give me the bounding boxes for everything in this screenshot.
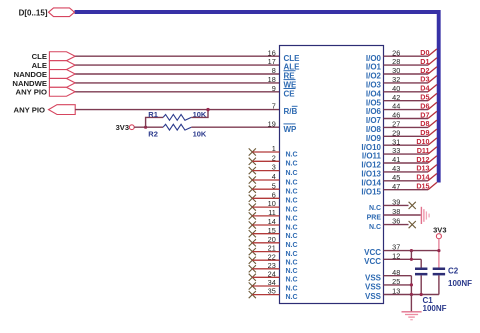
svg-text:16: 16 [268, 48, 276, 57]
svg-text:D14: D14 [416, 173, 429, 182]
wire R2 to pin 19 [191, 126, 279, 128]
junction dot VSS/ground [410, 293, 413, 296]
wire ground stem [410, 295, 412, 312]
pin 16 CLE [268, 48, 300, 63]
svg-text:NANDOE: NANDOE [14, 70, 47, 79]
svg-text:D5: D5 [420, 93, 429, 102]
pin 20 N.C (left row 11) [249, 235, 298, 249]
svg-text:I/O6: I/O6 [366, 107, 382, 116]
svg-text:I/O1: I/O1 [366, 63, 382, 72]
svg-text:D11: D11 [417, 146, 430, 155]
pin 2 N.C (left row 2) [249, 153, 298, 167]
svg-text:4: 4 [272, 172, 276, 181]
svg-text:N.C: N.C [369, 224, 381, 231]
wire I/O7 to bus [384, 118, 429, 120]
svg-text:5: 5 [272, 181, 276, 190]
bus D[0..15] wire [75, 12, 439, 183]
wire R1 left lead [146, 117, 164, 127]
svg-text:I/O0: I/O0 [366, 54, 382, 63]
svg-text:10K: 10K [193, 130, 207, 139]
svg-text:VSS: VSS [365, 283, 382, 292]
svg-text:C2: C2 [448, 267, 459, 276]
svg-text:18: 18 [268, 75, 276, 84]
wire I/O5 to bus [384, 100, 429, 102]
svg-text:D10: D10 [416, 137, 429, 146]
wire 3V3 down to VCC net [438, 239, 440, 268]
svg-text:D6: D6 [420, 101, 429, 110]
pin 42 I/O5 [366, 93, 400, 108]
svg-text:2: 2 [272, 153, 276, 162]
svg-text:I/O11: I/O11 [362, 152, 382, 161]
pin 38 PRE [367, 207, 421, 222]
svg-text:I/O9: I/O9 [366, 134, 382, 143]
svg-text:I/O2: I/O2 [366, 72, 382, 81]
svg-text:35: 35 [268, 287, 276, 296]
svg-text:CLE: CLE [284, 54, 301, 63]
pin 6 N.C (left row 6) [249, 190, 298, 204]
wire ANY PIO to IC [75, 91, 279, 93]
pin 25 VSS [365, 277, 411, 292]
ground symbol [402, 312, 422, 320]
wire I/O11 to bus [384, 153, 429, 155]
svg-text:R/B: R/B [284, 107, 298, 116]
pin 12 VCC [364, 251, 421, 266]
junction dot VCC 12 [410, 258, 413, 261]
wire I/O12 to bus [384, 162, 429, 164]
svg-text:N.C: N.C [286, 161, 298, 168]
op IC U? NAND flash body [280, 46, 384, 304]
pin 22 N.C (left row 13) [249, 252, 298, 266]
junction dot VCC rail [410, 249, 413, 252]
svg-text:N.C: N.C [286, 294, 298, 301]
wire I/O2 to bus [384, 73, 429, 75]
junction dot VSS 25 [410, 283, 413, 286]
wire VSS rail [410, 276, 412, 295]
svg-text:8: 8 [272, 66, 276, 75]
svg-text:D13: D13 [416, 164, 429, 173]
svg-text:N.C: N.C [286, 233, 298, 240]
svg-text:VSS: VSS [365, 273, 382, 282]
svg-text:11: 11 [268, 208, 276, 217]
pin 5 N.C (left row 5) [249, 181, 298, 195]
wire 3V3 to R2 [134, 126, 163, 128]
pin 18 WE [268, 75, 297, 90]
pin 11 N.C (left row 8) [249, 208, 298, 222]
pin 19 WP [268, 119, 297, 134]
pin 13 VSS [365, 287, 439, 302]
junction dot R1/pin7 [206, 108, 209, 111]
svg-text:I/O14: I/O14 [361, 178, 381, 187]
pin 10 N.C (left row 7) [249, 199, 298, 213]
svg-text:I/O5: I/O5 [366, 98, 382, 107]
wire I/O13 to bus [384, 171, 429, 173]
port D[0..15] [19, 8, 75, 18]
wire NANDOE to IC [75, 73, 279, 75]
wire VCC 37-12 tie [410, 251, 412, 260]
svg-text:D1: D1 [420, 57, 429, 66]
svg-text:N.C: N.C [286, 207, 298, 214]
pin 7 R/B [272, 102, 298, 117]
pin 8 RE [272, 66, 296, 81]
pin 46 I/O7 [366, 111, 400, 126]
pin 35 N.C (left row 17) [249, 287, 298, 301]
pin 9 CE [272, 84, 296, 99]
wire CLE to IC [75, 55, 279, 57]
svg-text:24: 24 [268, 269, 276, 278]
wire C1 top lead [420, 259, 422, 267]
svg-text:PRE: PRE [367, 215, 382, 222]
svg-text:VCC: VCC [364, 257, 381, 266]
port ALE [32, 61, 76, 70]
svg-text:3: 3 [272, 163, 276, 172]
pin 24 N.C (left row 15) [249, 269, 298, 283]
port ANY PIO (pin 7 net) [14, 105, 76, 115]
svg-text:I/O10: I/O10 [361, 143, 381, 152]
pin 34 N.C (left row 16) [249, 278, 298, 292]
svg-text:D9: D9 [420, 128, 429, 137]
pin 27 I/O8 [366, 120, 400, 135]
svg-text:7: 7 [272, 102, 276, 111]
pin 4 N.C (left row 4) [249, 172, 298, 186]
svg-text:N.C: N.C [286, 151, 298, 158]
svg-text:I/O7: I/O7 [366, 116, 382, 125]
pin 23 N.C (left row 14) [249, 261, 298, 275]
svg-text:N.C: N.C [286, 215, 298, 222]
wire C2 bottom lead [438, 275, 440, 294]
capacitor C1 100NF [415, 268, 447, 314]
pin 29 I/O9 [366, 128, 400, 143]
svg-text:D[0..15]: D[0..15] [19, 9, 48, 18]
svg-text:WP: WP [284, 125, 298, 134]
svg-text:9: 9 [272, 84, 276, 93]
svg-text:N.C: N.C [286, 260, 298, 267]
svg-text:N.C: N.C [286, 268, 298, 275]
pin 48 VSS [365, 268, 411, 283]
svg-text:I/O15: I/O15 [361, 187, 381, 196]
wire NANDWE to IC [75, 82, 279, 84]
svg-text:D2: D2 [420, 66, 429, 75]
svg-text:D12: D12 [416, 155, 429, 164]
junction dot R1/R2 node [144, 126, 147, 129]
pin 1 N.C (left row 1) [249, 144, 298, 158]
port NANDOE [14, 70, 76, 79]
wire I/O3 to bus [384, 82, 429, 84]
power node 3V3 (right) [433, 225, 446, 238]
port NANDWE [12, 78, 75, 87]
svg-text:100NF: 100NF [448, 279, 472, 288]
svg-text:N.C: N.C [286, 198, 298, 205]
wire I/O15 to bus [384, 189, 429, 191]
svg-text:I/O12: I/O12 [361, 161, 381, 170]
svg-text:D7: D7 [420, 110, 429, 119]
svg-text:N.C: N.C [286, 170, 298, 177]
svg-text:ANY PIO: ANY PIO [14, 106, 45, 115]
wire I/O8 to bus [384, 126, 429, 128]
pin 15 N.C (left row 10) [249, 226, 298, 240]
wire ALE to IC [75, 64, 279, 66]
svg-text:N.C: N.C [286, 179, 298, 186]
svg-text:1: 1 [272, 144, 276, 153]
pin 21 N.C (left row 12) [249, 244, 298, 258]
open/antenna symbol on PRE [421, 207, 429, 224]
svg-text:N.C: N.C [286, 242, 298, 249]
wire C1 bottom lead [420, 275, 422, 294]
pin 31 I/O10 [361, 137, 400, 152]
resistor R1 10K [148, 110, 207, 120]
svg-text:ALE: ALE [32, 61, 47, 70]
pin 47 I/O15 [361, 182, 400, 197]
svg-text:N.C: N.C [286, 224, 298, 231]
svg-text:R1: R1 [148, 110, 158, 119]
svg-text:17: 17 [268, 57, 276, 66]
svg-text:14: 14 [268, 217, 276, 226]
svg-text:I/O8: I/O8 [366, 125, 382, 134]
power node 3V3 (left) [116, 123, 135, 132]
svg-text:D3: D3 [420, 75, 429, 84]
svg-text:N.C: N.C [286, 251, 298, 258]
svg-text:N.C: N.C [369, 205, 381, 212]
wire R1 right lead to pin7 net [191, 110, 208, 118]
svg-text:VSS: VSS [365, 292, 382, 301]
svg-text:D15: D15 [416, 182, 429, 191]
svg-text:R2: R2 [148, 130, 158, 139]
port CLE [32, 52, 76, 61]
pin 40 I/O4 [366, 84, 400, 99]
pin 14 N.C (left row 9) [249, 217, 298, 231]
pin 36 N.C [369, 217, 416, 232]
wire I/O10 to bus [384, 144, 429, 146]
wire I/O14 to bus [384, 180, 429, 182]
resistor R2 10K [148, 124, 207, 138]
svg-text:3V3: 3V3 [116, 123, 129, 132]
port ANY PIO [16, 87, 76, 96]
pin 28 I/O1 [366, 57, 400, 72]
svg-text:I/O4: I/O4 [366, 89, 382, 98]
pin 26 I/O0 [366, 48, 400, 63]
svg-text:10: 10 [268, 199, 276, 208]
svg-text:D4: D4 [420, 84, 429, 93]
pin 37 VCC [364, 243, 439, 258]
svg-text:D8: D8 [420, 119, 429, 128]
junction dot C1 bottom [420, 293, 423, 296]
svg-text:VCC: VCC [364, 248, 381, 257]
svg-text:100NF: 100NF [423, 304, 447, 313]
svg-text:15: 15 [268, 226, 276, 235]
pin 3 N.C (left row 3) [249, 163, 298, 177]
svg-text:19: 19 [268, 119, 276, 128]
pin 17 ALE [268, 57, 300, 72]
svg-text:I/O3: I/O3 [366, 81, 382, 90]
svg-text:CE: CE [284, 89, 296, 98]
pin 44 I/O6 [366, 102, 400, 117]
svg-text:3V3: 3V3 [433, 225, 446, 234]
wire I/O1 to bus [384, 64, 429, 66]
pin 45 I/O14 [361, 173, 400, 188]
wire I/O4 to bus [384, 91, 429, 93]
svg-text:6: 6 [272, 190, 276, 199]
wire ANY PIO to pin 7 [75, 109, 279, 111]
pin 41 I/O12 [361, 155, 400, 170]
svg-text:I/O13: I/O13 [361, 170, 381, 179]
wire I/O0 to bus [384, 55, 429, 57]
svg-text:20: 20 [268, 235, 276, 244]
wire I/O6 to bus [384, 109, 429, 111]
svg-text:ANY PIO: ANY PIO [16, 88, 47, 97]
svg-text:N.C: N.C [286, 189, 298, 196]
capacitor C2 100NF [433, 267, 472, 288]
pin 33 I/O11 [362, 146, 400, 161]
wire I/O9 to bus [384, 135, 429, 137]
svg-text:NANDWE: NANDWE [12, 79, 47, 88]
junction dot VCC/3V3 [437, 249, 440, 252]
svg-text:CLE: CLE [32, 52, 47, 61]
svg-text:N.C: N.C [286, 277, 298, 284]
svg-text:D0: D0 [420, 48, 429, 57]
pin 30 I/O2 [366, 66, 400, 81]
pin 39 N.C [369, 198, 416, 213]
pin 43 I/O13 [361, 164, 400, 179]
svg-text:N.C: N.C [286, 285, 298, 292]
pin 32 I/O3 [366, 75, 400, 90]
